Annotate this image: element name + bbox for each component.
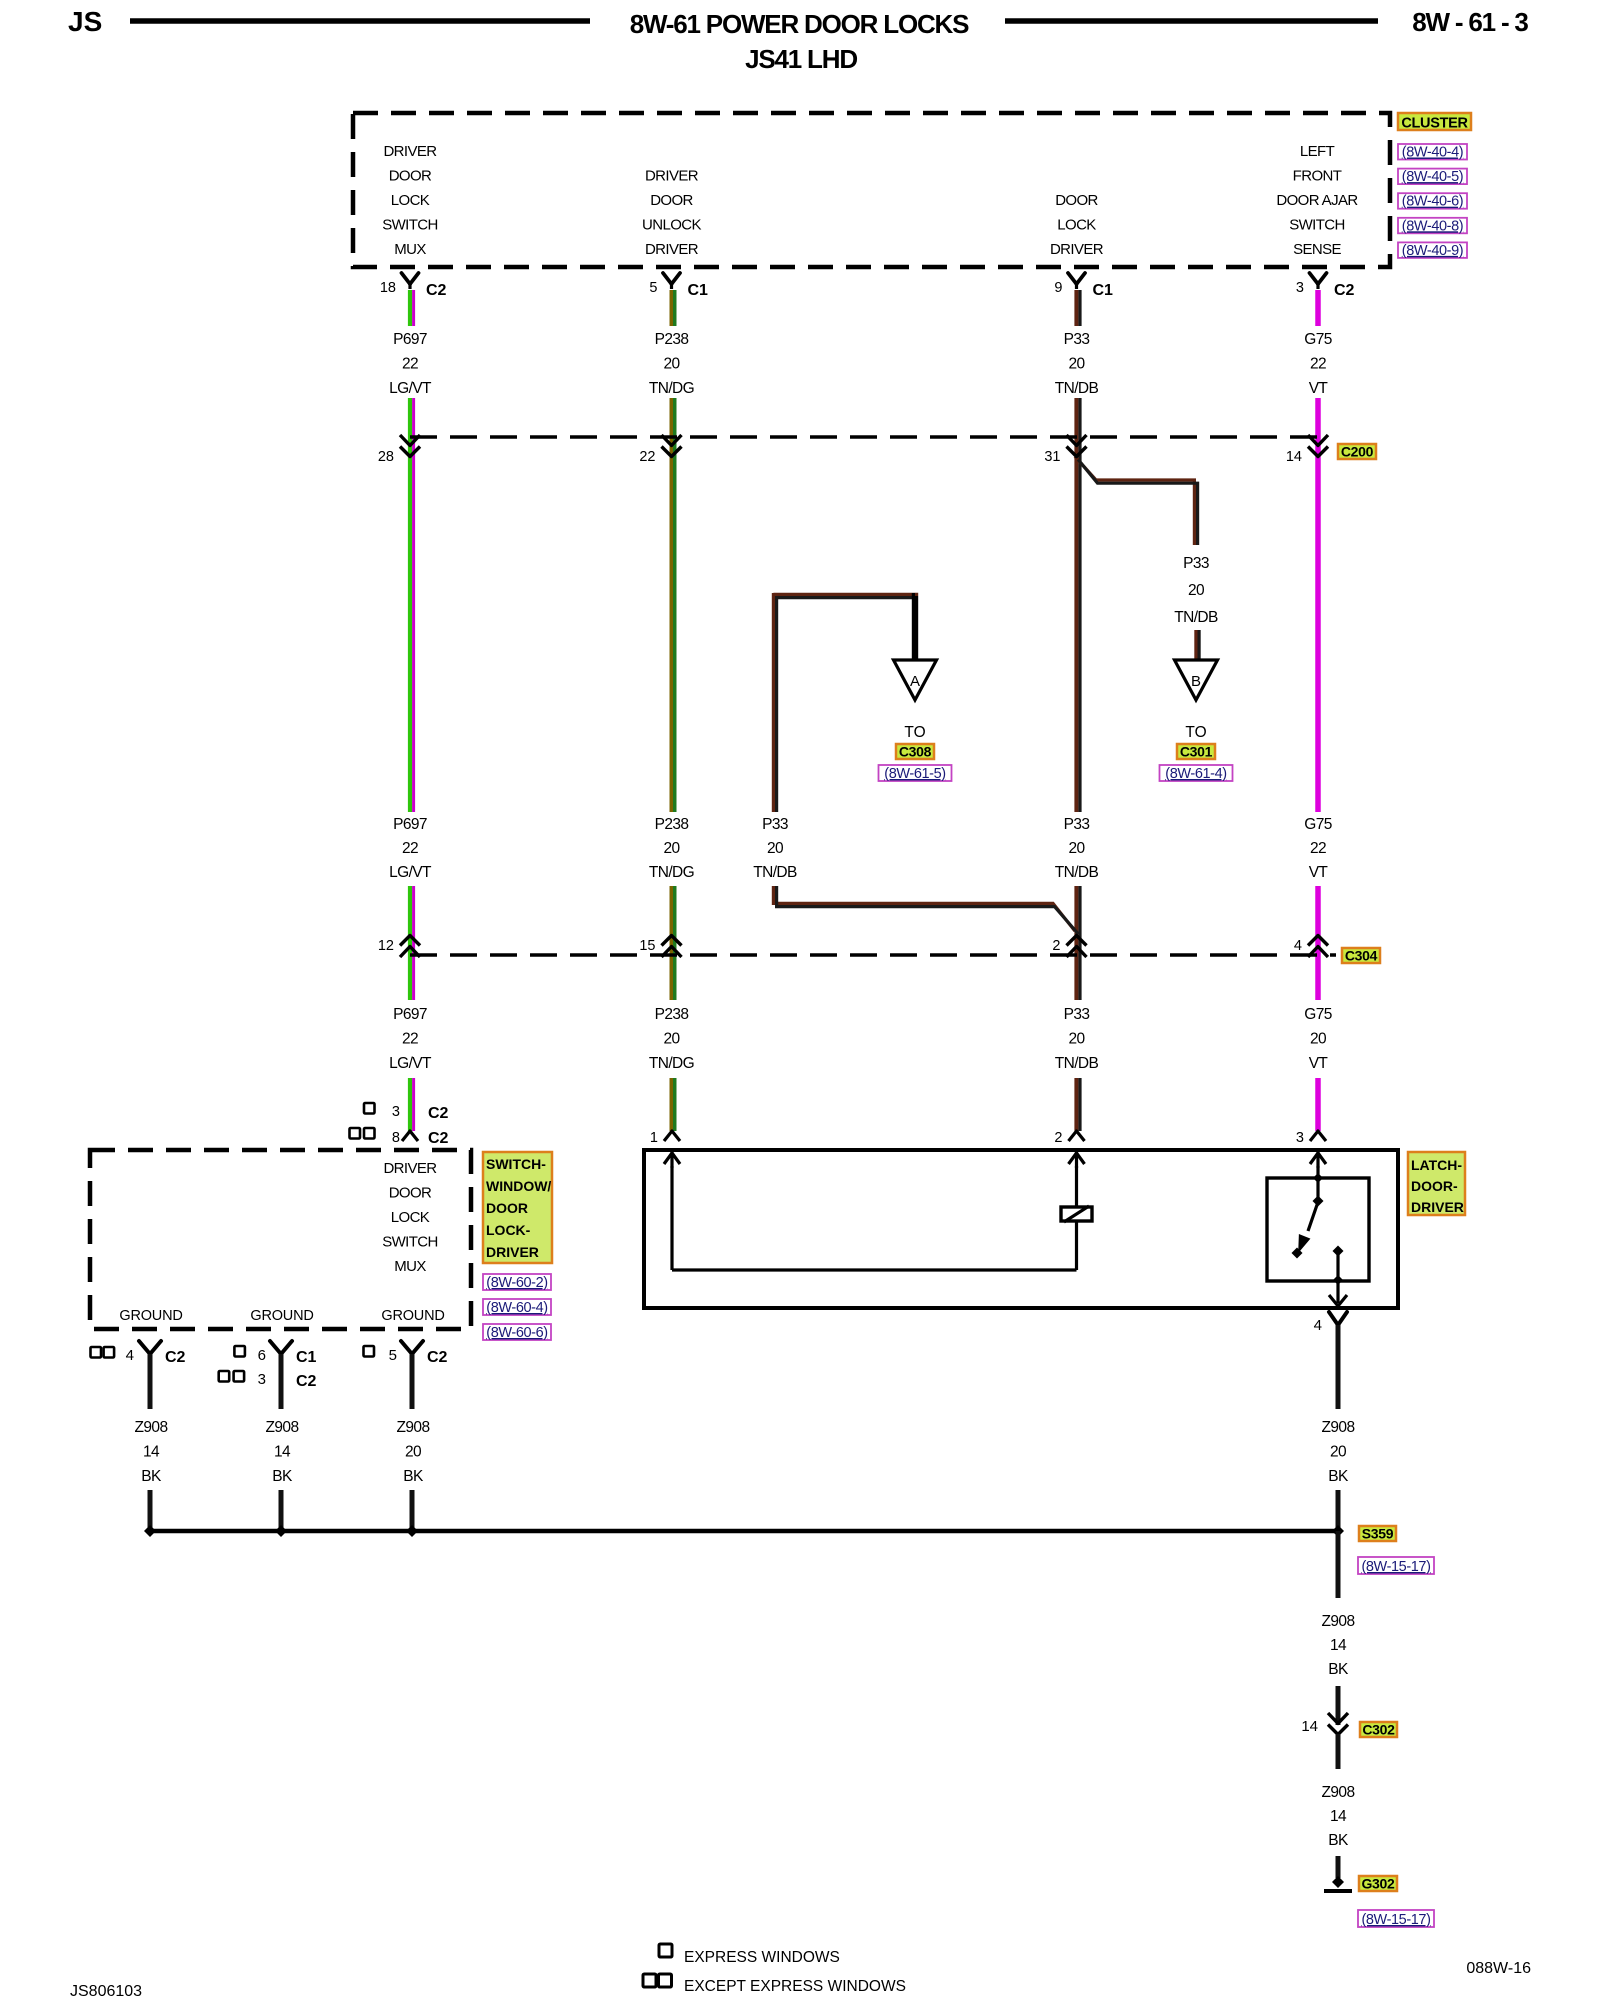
svg-text:DOOR: DOOR <box>650 192 693 209</box>
svg-text:BK: BK <box>403 1468 424 1485</box>
svg-text:C200: C200 <box>1341 444 1374 460</box>
svg-text:LOCK-: LOCK- <box>486 1222 531 1238</box>
svg-text:8W - 61 - 3: 8W - 61 - 3 <box>1412 7 1528 37</box>
svg-text:WINDOW/: WINDOW/ <box>486 1178 551 1194</box>
svg-text:Z908: Z908 <box>135 1419 168 1436</box>
svg-text:22: 22 <box>402 1031 418 1048</box>
svg-text:20: 20 <box>663 356 680 373</box>
svg-text:28: 28 <box>378 449 394 465</box>
svg-text:3: 3 <box>1296 1130 1304 1146</box>
svg-text:20: 20 <box>1310 1031 1327 1048</box>
svg-text:BK: BK <box>272 1468 293 1485</box>
svg-text:DRIVER: DRIVER <box>645 168 699 185</box>
svg-text:3: 3 <box>258 1371 266 1388</box>
svg-text:BK: BK <box>1328 1661 1349 1678</box>
svg-text:LATCH-: LATCH- <box>1411 1157 1462 1173</box>
svg-text:P33: P33 <box>1064 816 1090 833</box>
svg-text:LOCK: LOCK <box>391 192 430 209</box>
svg-text:2: 2 <box>1052 938 1060 954</box>
svg-text:Z908: Z908 <box>266 1419 299 1436</box>
svg-text:14: 14 <box>274 1444 291 1461</box>
svg-text:LOCK: LOCK <box>1057 217 1096 234</box>
svg-text:LOCK: LOCK <box>391 1209 430 1226</box>
svg-text:(8W-61-4): (8W-61-4) <box>1165 766 1226 782</box>
svg-text:C1: C1 <box>1093 282 1114 299</box>
svg-text:JS41 LHD: JS41 LHD <box>745 44 857 74</box>
svg-text:DOOR: DOOR <box>389 1185 432 1202</box>
svg-text:C2: C2 <box>426 282 447 299</box>
svg-text:DRIVER: DRIVER <box>383 1160 437 1177</box>
svg-text:(8W-60-4): (8W-60-4) <box>486 1300 547 1316</box>
svg-text:CLUSTER: CLUSTER <box>1401 116 1468 132</box>
svg-text:JS806103: JS806103 <box>70 1983 142 2000</box>
svg-text:DOOR-: DOOR- <box>1411 1178 1458 1194</box>
svg-text:C2: C2 <box>296 1373 317 1390</box>
svg-text:TN/DB: TN/DB <box>1174 609 1218 626</box>
svg-text:C2: C2 <box>428 1105 449 1122</box>
svg-text:Z908: Z908 <box>1322 1419 1355 1436</box>
svg-text:SWITCH-: SWITCH- <box>486 1156 546 1172</box>
svg-text:(8W-61-5): (8W-61-5) <box>884 766 945 782</box>
svg-text:20: 20 <box>1188 582 1205 599</box>
svg-text:C301: C301 <box>1180 744 1213 760</box>
svg-text:C304: C304 <box>1345 948 1378 964</box>
svg-text:3: 3 <box>1296 280 1304 296</box>
svg-text:C2: C2 <box>428 1130 449 1147</box>
svg-text:P33: P33 <box>1064 1006 1090 1023</box>
svg-text:P697: P697 <box>393 331 427 348</box>
svg-text:Z908: Z908 <box>1322 1613 1355 1630</box>
svg-text:5: 5 <box>649 280 657 296</box>
svg-text:P33: P33 <box>1064 331 1090 348</box>
svg-text:20: 20 <box>1068 1031 1085 1048</box>
svg-text:(8W-60-2): (8W-60-2) <box>486 1275 547 1291</box>
svg-text:4: 4 <box>126 1347 134 1364</box>
svg-text:(8W-40-6): (8W-40-6) <box>1402 194 1463 210</box>
svg-text:SWITCH: SWITCH <box>1289 217 1345 234</box>
svg-text:UNLOCK: UNLOCK <box>642 217 702 234</box>
svg-text:DOOR: DOOR <box>389 168 432 185</box>
svg-text:C302: C302 <box>1362 1722 1395 1738</box>
svg-text:VT: VT <box>1309 380 1329 397</box>
svg-text:C1: C1 <box>296 1349 317 1366</box>
svg-text:DOOR: DOOR <box>486 1200 528 1216</box>
svg-text:C1: C1 <box>688 282 709 299</box>
svg-text:FRONT: FRONT <box>1293 168 1342 185</box>
svg-text:20: 20 <box>663 1031 680 1048</box>
svg-text:DRIVER: DRIVER <box>486 1244 539 1260</box>
svg-text:B: B <box>1191 673 1201 690</box>
svg-text:8: 8 <box>392 1130 400 1146</box>
svg-text:22: 22 <box>639 449 655 465</box>
svg-text:G75: G75 <box>1304 1006 1332 1023</box>
svg-text:TN/DG: TN/DG <box>649 380 694 397</box>
svg-text:MUX: MUX <box>394 1258 426 1275</box>
svg-text:088W-16: 088W-16 <box>1466 1960 1531 1977</box>
svg-text:20: 20 <box>405 1444 422 1461</box>
svg-text:(8W-40-4): (8W-40-4) <box>1402 145 1463 161</box>
svg-text:BK: BK <box>1328 1468 1349 1485</box>
svg-text:TN/DG: TN/DG <box>649 1055 694 1072</box>
svg-text:Z908: Z908 <box>397 1419 430 1436</box>
svg-text:14: 14 <box>1301 1718 1318 1735</box>
svg-text:14: 14 <box>1286 449 1302 465</box>
svg-text:22: 22 <box>402 840 418 857</box>
svg-text:SWITCH: SWITCH <box>382 1234 438 1251</box>
svg-text:P697: P697 <box>393 1006 427 1023</box>
svg-text:14: 14 <box>1330 1808 1347 1825</box>
svg-text:DRIVER: DRIVER <box>1050 241 1104 258</box>
svg-text:MUX: MUX <box>394 241 426 258</box>
svg-text:20: 20 <box>663 840 680 857</box>
svg-text:DOOR: DOOR <box>1055 192 1098 209</box>
svg-text:G75: G75 <box>1304 331 1332 348</box>
svg-text:JS: JS <box>68 6 102 37</box>
svg-text:DOOR AJAR: DOOR AJAR <box>1276 192 1358 209</box>
svg-text:14: 14 <box>143 1444 160 1461</box>
svg-text:20: 20 <box>1068 356 1085 373</box>
svg-text:VT: VT <box>1309 1055 1329 1072</box>
svg-text:A: A <box>910 673 920 690</box>
svg-text:20: 20 <box>1330 1444 1347 1461</box>
svg-text:(8W-40-8): (8W-40-8) <box>1402 218 1463 234</box>
svg-text:Z908: Z908 <box>1322 1784 1355 1801</box>
svg-text:TO: TO <box>1185 724 1206 741</box>
svg-text:1: 1 <box>650 1130 658 1146</box>
svg-text:4: 4 <box>1294 938 1302 954</box>
svg-text:22: 22 <box>1310 356 1326 373</box>
svg-text:GROUND: GROUND <box>381 1308 444 1324</box>
svg-text:C2: C2 <box>427 1349 448 1366</box>
svg-text:C2: C2 <box>1334 282 1355 299</box>
svg-text:22: 22 <box>402 356 418 373</box>
svg-text:31: 31 <box>1044 449 1060 465</box>
svg-text:8W-61 POWER DOOR LOCKS: 8W-61 POWER DOOR LOCKS <box>630 9 969 39</box>
svg-text:5: 5 <box>389 1347 397 1364</box>
svg-text:P238: P238 <box>655 1006 689 1023</box>
svg-text:EXCEPT EXPRESS WINDOWS: EXCEPT EXPRESS WINDOWS <box>684 1978 906 1995</box>
svg-text:TN/DB: TN/DB <box>1055 380 1099 397</box>
svg-text:C2: C2 <box>165 1349 186 1366</box>
svg-text:GROUND: GROUND <box>119 1308 182 1324</box>
svg-text:GROUND: GROUND <box>250 1308 313 1324</box>
svg-text:TN/DB: TN/DB <box>1055 864 1099 881</box>
svg-text:(8W-40-5): (8W-40-5) <box>1402 169 1463 185</box>
svg-text:TN/DG: TN/DG <box>649 864 694 881</box>
svg-text:SWITCH: SWITCH <box>382 217 438 234</box>
svg-text:9: 9 <box>1054 280 1062 296</box>
svg-text:P33: P33 <box>762 816 788 833</box>
svg-text:2: 2 <box>1054 1130 1062 1146</box>
svg-text:C308: C308 <box>899 744 932 760</box>
svg-text:BK: BK <box>141 1468 162 1485</box>
svg-text:TN/DB: TN/DB <box>753 864 797 881</box>
svg-text:EXPRESS WINDOWS: EXPRESS WINDOWS <box>684 1949 840 1966</box>
svg-text:12: 12 <box>378 938 394 954</box>
svg-text:VT: VT <box>1309 864 1329 881</box>
svg-text:P238: P238 <box>655 331 689 348</box>
svg-text:(8W-40-9): (8W-40-9) <box>1402 243 1463 259</box>
svg-text:(8W-15-17): (8W-15-17) <box>1361 1912 1430 1928</box>
svg-text:P33: P33 <box>1183 555 1209 572</box>
svg-text:LEFT: LEFT <box>1300 143 1335 160</box>
svg-text:15: 15 <box>639 938 655 954</box>
svg-text:S359: S359 <box>1362 1526 1394 1542</box>
svg-text:P697: P697 <box>393 816 427 833</box>
svg-text:20: 20 <box>767 840 784 857</box>
svg-text:3: 3 <box>392 1104 400 1120</box>
svg-text:DRIVER: DRIVER <box>1411 1199 1464 1215</box>
svg-text:DRIVER: DRIVER <box>383 143 437 160</box>
svg-text:20: 20 <box>1068 840 1085 857</box>
svg-text:G75: G75 <box>1304 816 1332 833</box>
svg-text:TN/DB: TN/DB <box>1055 1055 1099 1072</box>
svg-text:(8W-15-17): (8W-15-17) <box>1361 1559 1430 1575</box>
svg-text:SENSE: SENSE <box>1293 241 1341 258</box>
svg-text:LG/VT: LG/VT <box>389 1055 432 1072</box>
svg-text:DRIVER: DRIVER <box>645 241 699 258</box>
svg-text:LG/VT: LG/VT <box>389 864 432 881</box>
svg-text:P238: P238 <box>655 816 689 833</box>
svg-text:4: 4 <box>1314 1317 1322 1334</box>
svg-text:BK: BK <box>1328 1832 1349 1849</box>
svg-text:LG/VT: LG/VT <box>389 380 432 397</box>
svg-text:14: 14 <box>1330 1637 1347 1654</box>
svg-text:G302: G302 <box>1361 1876 1395 1892</box>
svg-text:22: 22 <box>1310 840 1326 857</box>
svg-text:18: 18 <box>380 280 396 296</box>
svg-text:(8W-60-6): (8W-60-6) <box>486 1325 547 1341</box>
svg-text:6: 6 <box>258 1347 266 1364</box>
svg-text:TO: TO <box>904 724 925 741</box>
